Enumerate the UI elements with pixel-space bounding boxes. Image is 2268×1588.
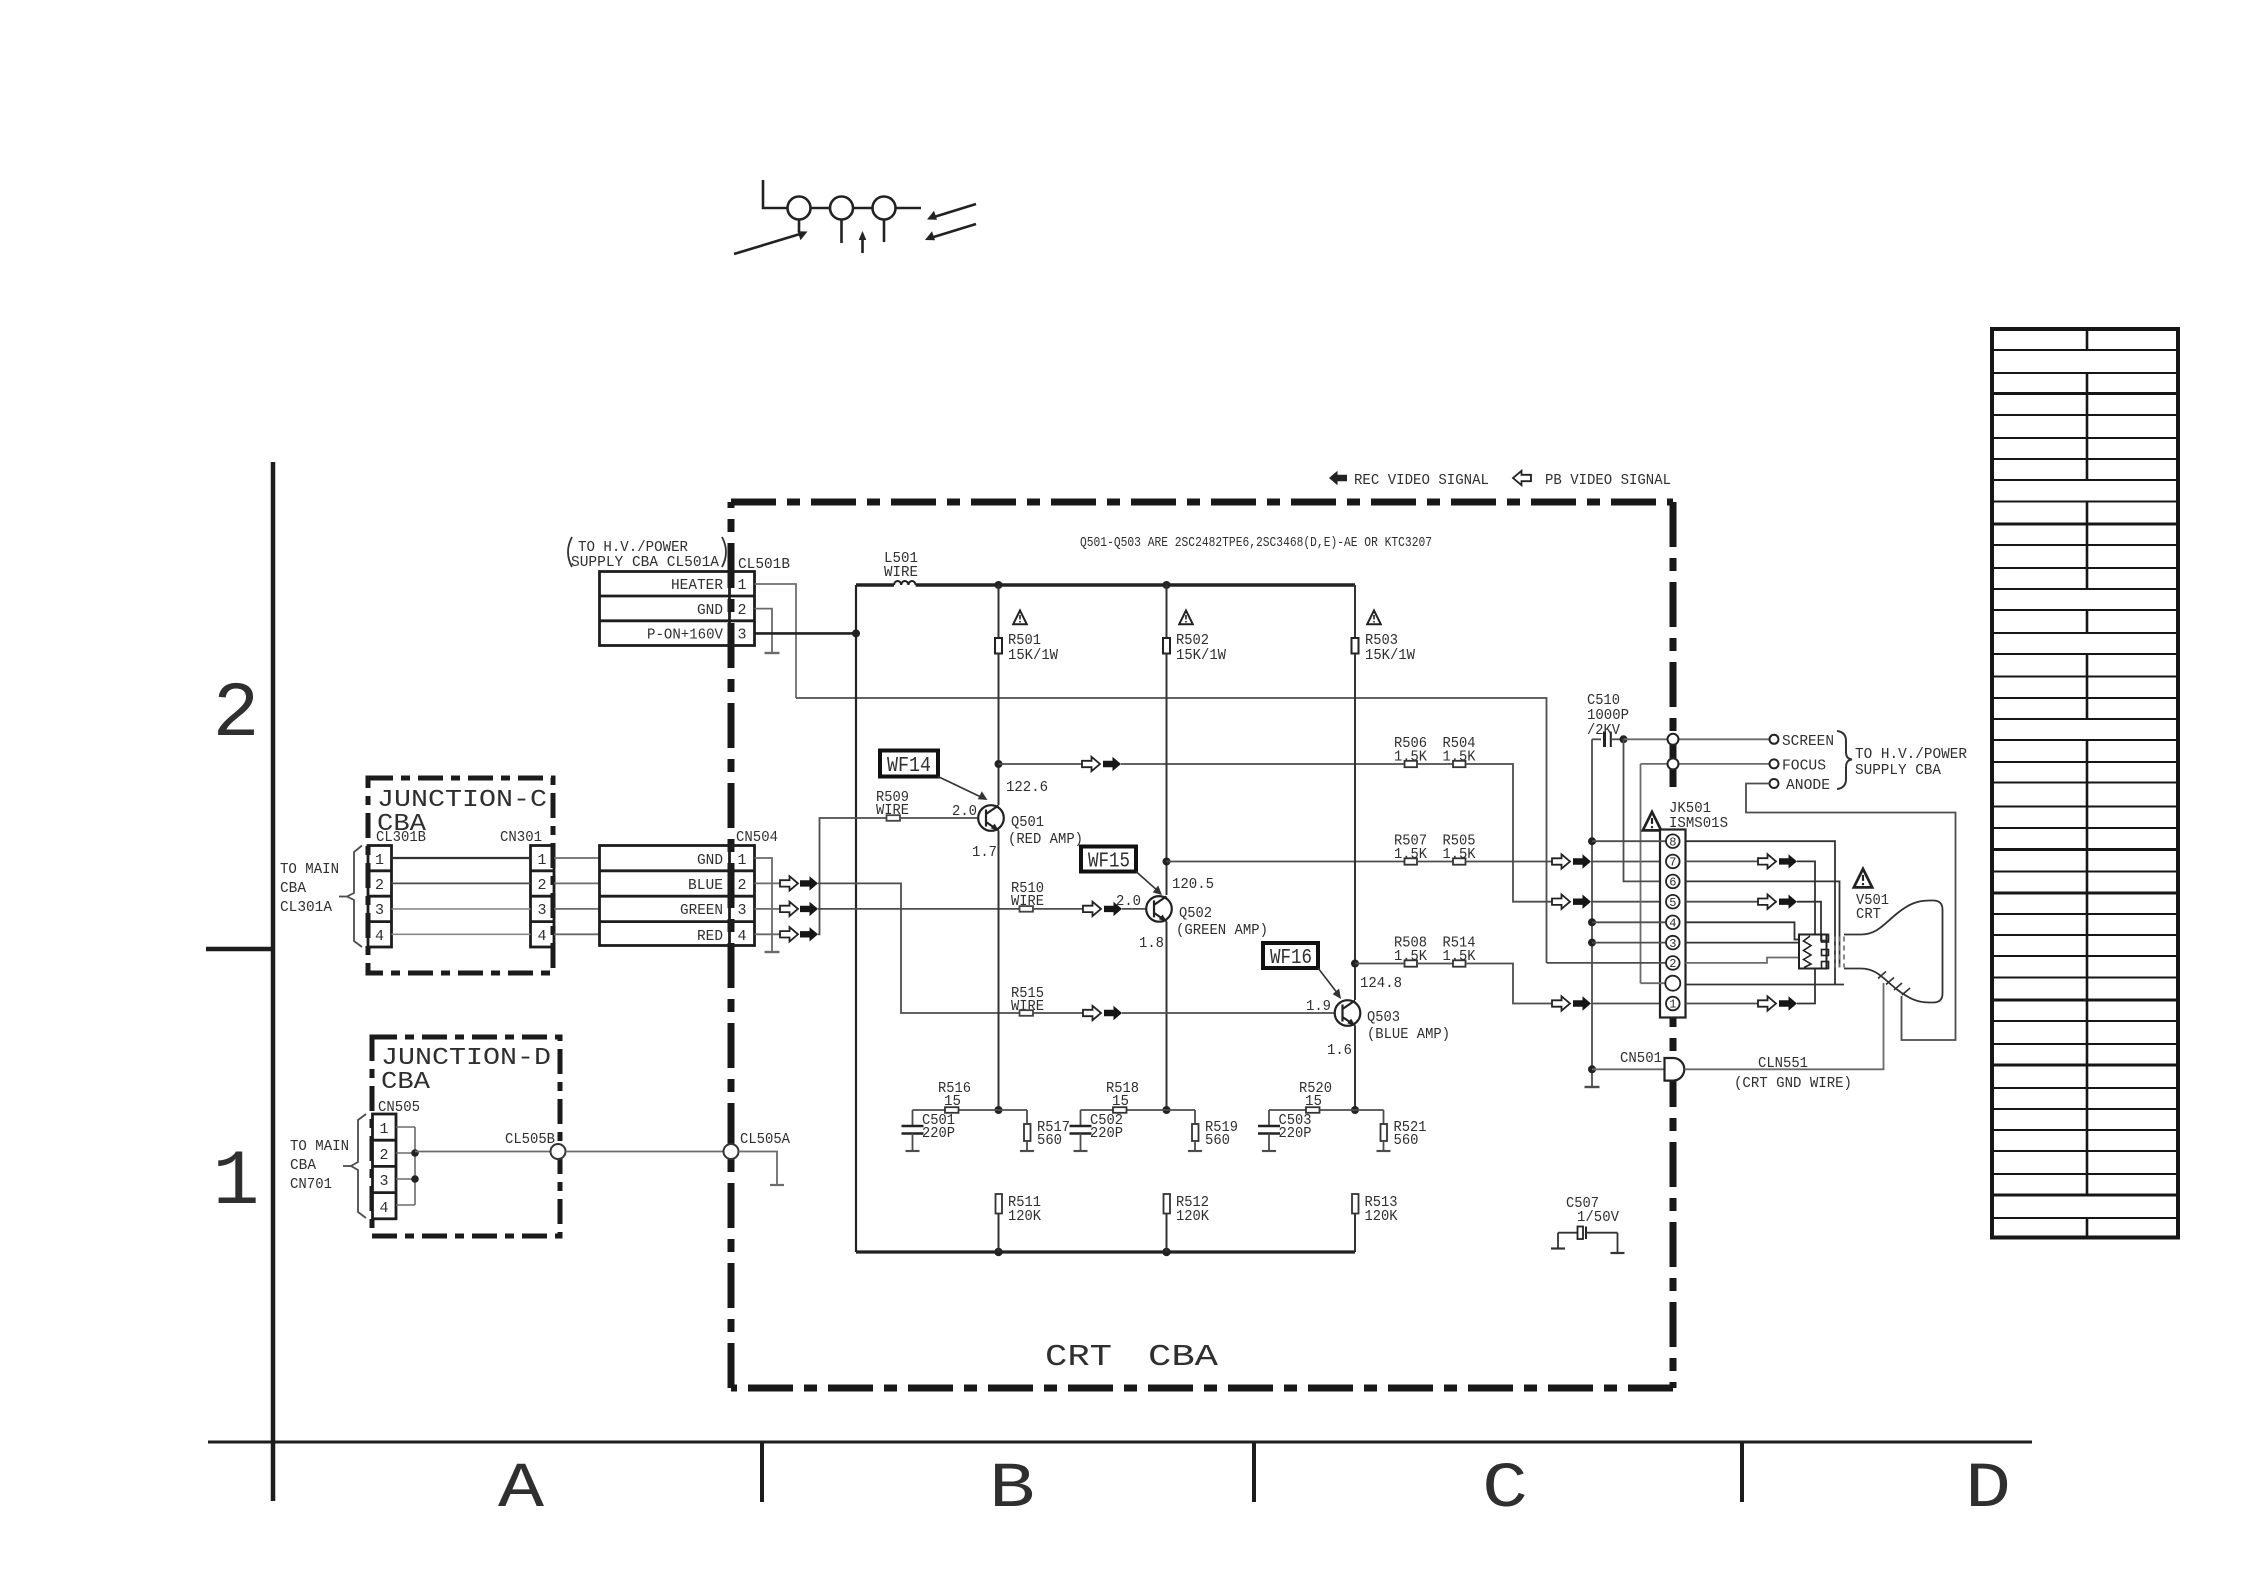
svg-text:220P: 220P: [1279, 1125, 1312, 1142]
wire top rail left of L501: [856, 583, 894, 587]
wire pin1 to neck bottom: [1797, 969, 1815, 1004]
ground symbol CN504: [765, 951, 780, 953]
capacitor C503 220P: [1258, 1110, 1312, 1151]
guide roller 1: [788, 197, 811, 220]
wire Q503 emitter down: [1354, 1026, 1356, 1111]
svg-text:SUPPLY CBA: SUPPLY CBA: [1855, 762, 1941, 779]
svg-text:D: D: [1965, 1454, 2011, 1526]
svg-text:3: 3: [379, 1173, 388, 1190]
svg-text:15K/1W: 15K/1W: [1365, 647, 1415, 664]
arrow pin7 filled: [1573, 854, 1591, 868]
resistor R515 WIRE: [1011, 985, 1044, 1016]
resistor R511 120K: [996, 1194, 1042, 1225]
warning triangle JK501: [1643, 812, 1661, 830]
svg-text:GREEN: GREEN: [680, 902, 723, 919]
guide 3 stem: [883, 220, 886, 243]
ground symbol C507 right: [1611, 1252, 1625, 1254]
resistor R505 1.5K: [1443, 833, 1476, 865]
arrow blue base outline: [1083, 1006, 1101, 1020]
svg-text:8: 8: [1669, 835, 1676, 849]
transistor Q502 (GREEN AMP): [1146, 896, 1172, 922]
wire CL301B-CN301 pin3: [392, 908, 531, 910]
wire JK pin4 left: [1592, 921, 1666, 923]
svg-text:7: 7: [1669, 856, 1676, 870]
arrow blue base filled: [1104, 1006, 1122, 1020]
svg-text:2: 2: [213, 671, 260, 759]
svg-text:560: 560: [1205, 1132, 1230, 1149]
CRT CBA bottom border: [731, 1385, 1673, 1392]
arrow crt5 outline: [1758, 895, 1776, 909]
row divider tick between zones 2 and 1: [206, 947, 273, 952]
CRT socket box: [1799, 935, 1827, 969]
node P-ON junction: [852, 629, 860, 637]
connector CL501B table: [600, 572, 755, 646]
resistor R516 15: [938, 1080, 971, 1113]
node blue emitter branch: [1351, 1106, 1359, 1114]
label WF15: [1081, 847, 1162, 896]
svg-text:SUPPLY CBA CL501A: SUPPLY CBA CL501A: [571, 554, 719, 571]
wire P-ON+160V pin3 to rail junction: [755, 632, 857, 635]
wire pin6 right: [1686, 881, 1840, 967]
svg-text:C: C: [1482, 1454, 1528, 1526]
border pass-through circle FOCUS: [1668, 758, 1679, 769]
wire red row to pin5 feed: [1466, 764, 1553, 902]
svg-text:CN501: CN501: [1620, 1050, 1662, 1067]
inductor L501: [894, 581, 916, 585]
svg-text:1: 1: [379, 1121, 388, 1138]
ground symbol R517: [1020, 1150, 1034, 1152]
arrow pin1 filled: [1573, 996, 1591, 1010]
lower arrow from right: [932, 224, 976, 238]
SECTION: page frame: [206, 462, 2032, 1502]
resistor R510 WIRE: [1011, 880, 1044, 912]
warning triangle R503: [1367, 611, 1381, 625]
wire red collector row to R506: [1121, 763, 1405, 765]
wire out of guide 3: [896, 207, 922, 210]
wire GREEN signal to R510: [818, 908, 1020, 910]
brace TO H.V./POWER SUPPLY CBA: [1837, 731, 1852, 789]
svg-text:1.8: 1.8: [1139, 935, 1164, 952]
wire blue branch horizontal: [1269, 1109, 1384, 1111]
wire CL505B to CL505A: [566, 1151, 724, 1153]
pin 3: [1666, 936, 1680, 950]
node Q503 collector tap: [1351, 960, 1359, 968]
svg-text:1: 1: [537, 852, 546, 869]
node Q502 collector tap: [1163, 858, 1171, 866]
warning triangle V501: [1854, 869, 1872, 887]
svg-text:CBA: CBA: [280, 880, 306, 897]
arrow crt1 outline: [1758, 996, 1776, 1010]
svg-text:Q501-Q503 ARE 2SC2482TPE6,2SC3: Q501-Q503 ARE 2SC2482TPE6,2SC3468(D,E)-A…: [1080, 535, 1432, 551]
svg-text:GND: GND: [697, 852, 723, 869]
svg-text:CL505B: CL505B: [505, 1131, 555, 1148]
wire pin8 right: [1686, 841, 1836, 984]
wire green branch horizontal: [1081, 1109, 1196, 1111]
resistor R521 560: [1381, 1110, 1427, 1151]
connector JK501 box: [1660, 830, 1686, 1018]
wire R510 to arrows: [1033, 908, 1083, 910]
arrow green filled: [800, 902, 818, 916]
ground symbol CL501B pin2: [765, 652, 780, 654]
resistor R519 560: [1192, 1110, 1238, 1151]
wire pin7 to neck: [1797, 861, 1815, 934]
wire blank pin to neck glass: [1686, 984, 1845, 986]
wire CN301-CN504 pin4: [554, 933, 600, 935]
svg-text:4: 4: [737, 928, 746, 945]
node bus CN501: [1588, 1065, 1596, 1073]
svg-text:560: 560: [1394, 1132, 1419, 1149]
pin 7: [1666, 855, 1680, 869]
svg-text:TO H.V./POWER: TO H.V./POWER: [1855, 746, 1967, 763]
CRT heater zigzag: [1804, 936, 1812, 968]
REC video signal filled arrow: [1329, 471, 1347, 485]
wire arrows to JK pin7: [1591, 861, 1666, 863]
svg-text:B: B: [989, 1454, 1035, 1526]
svg-text:4: 4: [375, 928, 384, 945]
resistor R517 560: [1024, 1110, 1070, 1151]
wire JK pin8 left: [1592, 840, 1666, 842]
CRT neck glass dashes: [1834, 937, 1836, 968]
node bus pin8: [1588, 837, 1596, 845]
svg-text:4: 4: [537, 928, 546, 945]
wire FOCUS vertical to blank pin: [1640, 764, 1642, 983]
mask for JK501 label over dashed border: [1667, 790, 1679, 830]
wire bottom emitter bus: [856, 1250, 1355, 1253]
wire R501 to collector node: [998, 654, 1000, 806]
pin 6: [1666, 875, 1680, 889]
svg-text:CN504: CN504: [736, 829, 778, 846]
resistor R504 1.5K: [1443, 735, 1476, 767]
wire CN505 pin1 jumper: [396, 1126, 415, 1128]
wire HEATER pin1 to heater bus: [755, 584, 797, 698]
wire CN301-CN504 pin3: [554, 908, 600, 910]
svg-text:220P: 220P: [922, 1125, 955, 1142]
wire heater bus across to JK501 pin2 column: [796, 698, 1547, 963]
svg-text:3: 3: [375, 902, 384, 919]
node red emitter branch: [995, 1106, 1003, 1114]
svg-text:1: 1: [737, 577, 746, 594]
svg-text:CRT: CRT: [1856, 906, 1881, 923]
guide roller 2: [830, 197, 853, 220]
wire CN505 pin4 jumper: [396, 1204, 415, 1206]
svg-text:2: 2: [737, 877, 746, 894]
arrow pin7 outline: [1552, 854, 1570, 868]
svg-text:(GREEN AMP): (GREEN AMP): [1176, 922, 1268, 939]
capacitor C510 1000P/2KV: [1587, 692, 1629, 747]
wire Q501 emitter down: [998, 831, 1000, 1111]
node green emitter branch: [1163, 1106, 1171, 1114]
svg-text:1: 1: [375, 852, 384, 869]
node rail/red column: [995, 581, 1003, 589]
svg-text:WIRE: WIRE: [884, 564, 918, 581]
svg-text:15K/1W: 15K/1W: [1008, 647, 1058, 664]
connector CN504 table: [600, 846, 755, 946]
pin 1: [1666, 997, 1680, 1011]
wire C510 branch down to pin6: [1624, 739, 1667, 881]
column tick C/D: [1740, 1442, 1744, 1502]
CRT anode hatch marks: [1878, 972, 1910, 996]
wire red branch horizontal: [913, 1109, 1028, 1111]
wire CN505 pin3 jumper: [396, 1178, 415, 1180]
wire pin1 right: [1686, 1003, 1759, 1005]
warning triangle R501: [1013, 611, 1027, 625]
wire JK pin3 left: [1592, 942, 1666, 944]
terminal circle FOCUS: [1770, 759, 1779, 768]
svg-text:2: 2: [537, 877, 546, 894]
upper arrow from right: [934, 204, 976, 217]
ground symbol R519: [1188, 1150, 1202, 1152]
arrow crt7 outline: [1758, 854, 1776, 868]
wire CN301-CN504 pin1: [554, 857, 600, 859]
wire FOCUS row: [1641, 763, 1770, 765]
SECTION: JUNCTION-D CBA: [290, 1037, 560, 1236]
CRT funnel outline: [1844, 901, 1943, 1003]
svg-text:CN301: CN301: [500, 829, 542, 846]
node Q501 collector tap: [995, 760, 1003, 768]
svg-text:CBA: CBA: [1148, 1340, 1218, 1375]
wire RED signal up and to R509: [818, 818, 887, 934]
ground symbol C503: [1262, 1150, 1276, 1152]
guide roller 3: [873, 197, 896, 220]
wire R509 to Q501 base: [900, 817, 978, 819]
svg-text:PB VIDEO SIGNAL: PB VIDEO SIGNAL: [1545, 472, 1671, 489]
svg-text:CBA: CBA: [290, 1157, 316, 1174]
svg-text:4: 4: [1669, 917, 1676, 931]
capacitor C507 1/50V: [1558, 1195, 1619, 1253]
svg-text:A: A: [498, 1454, 545, 1526]
wire pin4 to neck: [1686, 922, 1800, 939]
node rail/green column: [1163, 581, 1171, 589]
wire CN505 tie vertical: [414, 1127, 416, 1205]
svg-text:P-ON+160V: P-ON+160V: [647, 627, 723, 644]
resistor R502 15K/1W: [1163, 585, 1226, 664]
wire arrows to JK pin5: [1591, 901, 1666, 903]
capacitor C501 220P: [902, 1110, 956, 1151]
svg-text:REC VIDEO SIGNAL: REC VIDEO SIGNAL: [1354, 472, 1489, 489]
SECTION: tape path symbol (top): [734, 180, 976, 254]
wire CL301B-CN301 pin2: [392, 882, 531, 884]
connector CN505 pin boxes: [373, 1114, 397, 1219]
svg-text:WF14: WF14: [887, 755, 931, 778]
svg-text:ANODE: ANODE: [1786, 777, 1830, 794]
SECTION: revision table (right side, empty): [1992, 329, 2178, 1238]
wire blue collector to R508: [1355, 963, 1405, 965]
svg-text:Q502: Q502: [1179, 905, 1212, 922]
svg-text:122.6: 122.6: [1006, 779, 1048, 796]
resistor R506 1.5K: [1394, 735, 1427, 767]
svg-text:Q501: Q501: [1011, 814, 1044, 831]
svg-text:(RED AMP): (RED AMP): [1008, 831, 1083, 848]
label WF16: [1263, 943, 1341, 999]
wire pin2 to neck: [1686, 958, 1800, 963]
resistor R518 15: [1106, 1080, 1139, 1113]
wire R511 to bus: [998, 1214, 1000, 1253]
resistor R503 15K/1W: [1352, 585, 1416, 664]
label WF14: [880, 751, 988, 801]
brace TO MAIN CBA CN701: [351, 1114, 366, 1218]
svg-text:FOCUS: FOCUS: [1782, 758, 1826, 775]
transistor Q503 (BLUE AMP): [1335, 1000, 1361, 1026]
guide 2 stem: [840, 220, 843, 244]
terminal CL505B: [551, 1144, 566, 1159]
wire top rail right of L501: [916, 583, 1355, 587]
svg-text:CBA: CBA: [381, 1069, 431, 1096]
ground symbol R521: [1377, 1150, 1391, 1152]
pin 5: [1666, 895, 1680, 909]
resistor R513 120K: [1352, 1194, 1398, 1225]
wire R512 to bus: [1166, 1214, 1168, 1253]
wire arrows to JK pin1: [1591, 1003, 1666, 1005]
resistor R501 15K/1W: [995, 585, 1058, 664]
CRT CBA right border: [1670, 502, 1677, 1388]
svg-text:SCREEN: SCREEN: [1782, 733, 1834, 750]
wire L-bend into guide 1: [763, 180, 788, 208]
blank pin: [1665, 976, 1680, 991]
svg-text:RED: RED: [697, 928, 723, 945]
wire red collector row to arrows: [999, 763, 1083, 765]
wire BLUE out: [755, 882, 781, 884]
wire GND pin2 to ground: [755, 609, 773, 653]
svg-text:WF15: WF15: [1088, 851, 1130, 874]
node CN505 pin3: [411, 1175, 419, 1183]
diagonal arrow from lower left: [734, 234, 800, 254]
capacitor C502 220P: [1070, 1110, 1124, 1151]
svg-text:3: 3: [737, 902, 746, 919]
svg-text:15K/1W: 15K/1W: [1176, 647, 1226, 664]
arrow crt7 filled: [1779, 854, 1797, 868]
wire R503 to collector node: [1354, 654, 1356, 1001]
column tick B/C: [1252, 1442, 1256, 1502]
svg-text:2.0: 2.0: [1116, 893, 1141, 910]
resistor R514 1.5K: [1443, 935, 1476, 967]
wire left box edge vertical: [855, 585, 857, 1252]
svg-text:1: 1: [1669, 998, 1676, 1012]
wire green row to arrows: [1466, 861, 1553, 863]
ground symbol C501: [906, 1150, 920, 1152]
SECTION: CRT CBA dashed boundary box: [731, 502, 1673, 1388]
svg-text:2: 2: [1669, 957, 1676, 971]
CRT socket tab 1: [1822, 935, 1829, 943]
wire CN505 to CL505B: [415, 1151, 551, 1153]
node C510/pin6 branch: [1620, 735, 1628, 743]
up arrow: [861, 238, 864, 253]
svg-text:120K: 120K: [1008, 1208, 1041, 1225]
column tick A/B: [760, 1442, 764, 1502]
JUNCTION-D dashed box: [372, 1037, 560, 1236]
svg-text:2: 2: [737, 602, 746, 619]
resistor R509 WIRE: [876, 789, 909, 821]
PB video signal outline arrow: [1513, 471, 1531, 485]
wire RED out: [755, 933, 781, 935]
border pass-through circle SCREEN: [1668, 734, 1679, 745]
svg-text:1.6: 1.6: [1327, 1042, 1352, 1059]
wire JK pin2 left (heater): [1547, 962, 1667, 964]
terminal circle SCREEN: [1770, 735, 1779, 744]
wire CLN551 CRT gnd wire: [1685, 983, 1884, 1069]
wire R506-R504: [1417, 763, 1453, 765]
SECTION: JUNCTION-C CBA: [280, 778, 554, 973]
wire CL301B-CN301 pin4: [392, 933, 531, 935]
guide 1 stem: [798, 220, 801, 233]
svg-text:(BLUE AMP): (BLUE AMP): [1367, 1026, 1450, 1043]
wire R502 to collector node: [1166, 654, 1168, 896]
svg-text:TO MAIN: TO MAIN: [280, 861, 339, 878]
wire pin7 right: [1686, 860, 1759, 862]
arrow crt5 filled: [1779, 895, 1797, 909]
wire guide1-guide2: [811, 207, 831, 210]
table column divider segments: [2086, 329, 2089, 350]
svg-text:JUNCTION-C: JUNCTION-C: [377, 787, 547, 814]
svg-text:220P: 220P: [1090, 1125, 1123, 1142]
wire R513 to bus: [1354, 1214, 1356, 1253]
label (TO H.V./POWER SUPPLY CBA CL501A): [568, 537, 572, 567]
wire green collector row to R507: [1167, 861, 1405, 863]
arrow green base outline: [1083, 902, 1101, 916]
svg-text:3: 3: [1669, 937, 1676, 951]
svg-text:TO MAIN: TO MAIN: [290, 1138, 349, 1155]
svg-text:1.7: 1.7: [972, 844, 997, 861]
node bus/green column: [1162, 1248, 1170, 1256]
arrow red filled: [800, 927, 818, 941]
svg-text:WF16: WF16: [1270, 947, 1312, 970]
wire gnd bus to CN501: [1592, 1068, 1665, 1070]
svg-text:CL301A: CL301A: [280, 899, 332, 916]
svg-text:124.8: 124.8: [1360, 975, 1402, 992]
svg-text:HEATER: HEATER: [671, 577, 723, 594]
svg-text:4: 4: [379, 1200, 388, 1217]
svg-text:1.9: 1.9: [1306, 998, 1331, 1015]
wire CL505A to ground: [739, 1152, 778, 1186]
svg-text:CLN551: CLN551: [1758, 1055, 1808, 1072]
svg-text:CRT: CRT: [1045, 1340, 1112, 1375]
JUNCTION-C dashed box: [368, 778, 553, 973]
svg-text:1/50V: 1/50V: [1577, 1209, 1619, 1226]
wire SCREEN row: [1624, 738, 1770, 740]
pin 8: [1666, 834, 1680, 848]
ground bus vertical: [1591, 739, 1593, 1087]
wire CN505 pin2 jumper: [396, 1152, 415, 1154]
ground symbol bus: [1585, 1086, 1600, 1088]
svg-text:Q503: Q503: [1367, 1009, 1400, 1026]
wire R515 to arrows: [1033, 1012, 1083, 1014]
wire pin3 to neck: [1686, 942, 1800, 944]
wire Q502 emitter down: [1166, 921, 1168, 1110]
terminal CL505A: [724, 1144, 739, 1159]
wire R508-R514: [1417, 963, 1453, 965]
svg-text:(CRT GND WIRE): (CRT GND WIRE): [1734, 1075, 1852, 1092]
connector CL301B pin boxes: [368, 846, 392, 948]
svg-text:5: 5: [1669, 896, 1676, 910]
ground symbol CL505A: [770, 1184, 784, 1186]
wire pin5 right: [1686, 901, 1759, 903]
node CN505 pin2: [411, 1149, 419, 1157]
terminal circle ANODE: [1770, 779, 1779, 788]
arrow crt1 filled: [1779, 996, 1797, 1010]
wire pin5 to neck: [1797, 902, 1827, 941]
svg-text:560: 560: [1037, 1132, 1062, 1149]
node bus pin3: [1588, 939, 1596, 947]
CRT CBA left border: [728, 502, 735, 1388]
pin 4: [1666, 916, 1680, 930]
svg-text:120K: 120K: [1365, 1208, 1398, 1225]
connector CN301 pin boxes: [531, 846, 555, 948]
wire BLUE signal to Q503 base: [818, 883, 1020, 1013]
svg-text:120K: 120K: [1176, 1208, 1209, 1225]
CRT socket tab 3: [1822, 962, 1829, 969]
svg-text:JUNCTION-D: JUNCTION-D: [381, 1045, 551, 1072]
wire CN504 GND to ground: [755, 858, 773, 952]
SECTION: CN504: [554, 829, 818, 952]
